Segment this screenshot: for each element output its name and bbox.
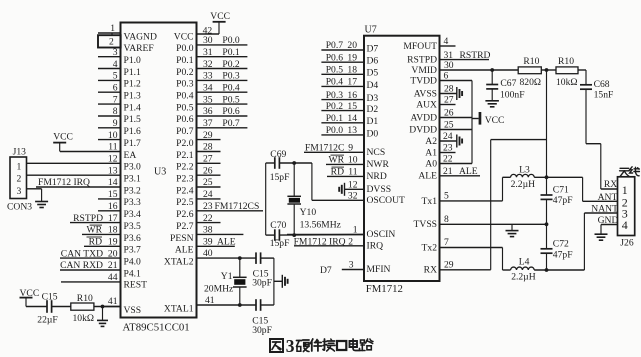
svg-text:VCC: VCC [485, 115, 505, 126]
svg-text:DVSS: DVSS [367, 184, 392, 195]
svg-text:FM1712 IRQ: FM1712 IRQ [294, 236, 346, 247]
svg-text:WR: WR [329, 155, 345, 166]
svg-text:CON3: CON3 [7, 202, 32, 213]
svg-text:9: 9 [348, 143, 353, 154]
svg-text:C72: C72 [553, 239, 569, 250]
svg-text:3: 3 [17, 186, 22, 197]
svg-text:RSTPD: RSTPD [407, 55, 437, 66]
svg-text:OSCOUT: OSCOUT [367, 195, 406, 206]
svg-text:NCS: NCS [367, 147, 386, 158]
svg-text:100nF: 100nF [500, 90, 525, 101]
svg-text:RX: RX [604, 179, 617, 190]
svg-text:NANT: NANT [591, 203, 618, 214]
svg-text:30: 30 [203, 35, 213, 46]
svg-text:40: 40 [203, 248, 213, 259]
svg-text:VCC: VCC [174, 31, 194, 42]
svg-text:8: 8 [113, 106, 118, 117]
svg-text:C68: C68 [594, 79, 610, 90]
svg-text:P0.6: P0.6 [326, 52, 344, 63]
svg-text:VSS: VSS [124, 305, 142, 316]
svg-text:A2: A2 [425, 136, 437, 147]
svg-text:2: 2 [348, 236, 353, 247]
svg-text:17: 17 [347, 77, 357, 88]
svg-text:19: 19 [108, 237, 118, 248]
svg-text:30: 30 [444, 60, 454, 71]
svg-text:D7: D7 [367, 43, 379, 54]
svg-text:D4: D4 [367, 80, 379, 91]
svg-text:P0.6: P0.6 [176, 114, 194, 125]
svg-text:P0.3: P0.3 [222, 71, 240, 82]
svg-text:21: 21 [443, 166, 453, 177]
svg-text:18: 18 [108, 225, 118, 236]
svg-text:3: 3 [349, 259, 354, 270]
svg-text:P0.0: P0.0 [222, 35, 240, 46]
svg-text:D5: D5 [367, 68, 379, 79]
svg-text:D2: D2 [367, 104, 379, 115]
svg-text:XTAL2: XTAL2 [164, 256, 194, 267]
svg-text:FM1712C: FM1712C [305, 143, 344, 154]
svg-text:P0.4: P0.4 [176, 91, 194, 102]
svg-text:MFIN: MFIN [367, 264, 391, 275]
svg-text:P0.1: P0.1 [326, 113, 344, 124]
svg-text:P1.4: P1.4 [124, 102, 142, 113]
svg-text:26: 26 [444, 108, 454, 119]
svg-text:P2.7: P2.7 [176, 221, 194, 232]
svg-text:P0.1: P0.1 [176, 55, 194, 66]
svg-text:4: 4 [444, 36, 449, 47]
svg-text:C69: C69 [270, 149, 286, 160]
svg-text:A1: A1 [425, 147, 437, 158]
svg-text:L3: L3 [519, 165, 530, 176]
svg-text:20MHz: 20MHz [204, 284, 233, 295]
svg-text:CAN RXD: CAN RXD [60, 260, 103, 271]
svg-text:41: 41 [205, 295, 215, 306]
svg-text:P1.5: P1.5 [124, 114, 142, 125]
svg-text:820Ω: 820Ω [520, 77, 542, 88]
svg-text:5: 5 [444, 190, 449, 201]
svg-text:AT89C51CC01: AT89C51CC01 [123, 322, 190, 334]
svg-text:18: 18 [347, 65, 357, 76]
svg-text:P0.0: P0.0 [326, 125, 344, 136]
svg-text:13.56MHz: 13.56MHz [300, 219, 341, 230]
svg-text:24: 24 [203, 189, 213, 200]
svg-text:VMID: VMID [411, 65, 437, 76]
svg-text:ALE: ALE [217, 237, 236, 248]
svg-text:37: 37 [203, 118, 213, 129]
svg-text:33: 33 [203, 71, 213, 82]
svg-text:P2.5: P2.5 [176, 197, 194, 208]
svg-text:29: 29 [444, 259, 454, 270]
svg-text:P3.1: P3.1 [124, 174, 142, 185]
svg-text:3: 3 [286, 336, 295, 356]
svg-text:13: 13 [108, 165, 118, 176]
svg-text:P0.2: P0.2 [326, 101, 344, 112]
svg-text:27: 27 [203, 154, 213, 165]
svg-text:15pF: 15pF [270, 172, 290, 183]
svg-text:47pF: 47pF [553, 250, 573, 261]
svg-text:MFOUT: MFOUT [403, 41, 437, 52]
svg-text:TVSS: TVSS [414, 219, 437, 230]
svg-text:R10: R10 [77, 293, 93, 304]
svg-text:NRD: NRD [367, 171, 387, 182]
svg-text:A0: A0 [425, 158, 437, 169]
svg-text:Y1: Y1 [221, 271, 233, 282]
svg-text:19: 19 [347, 52, 357, 63]
svg-text:14: 14 [347, 113, 357, 124]
svg-text:13: 13 [347, 125, 357, 136]
svg-text:P1.7: P1.7 [124, 138, 142, 149]
svg-text:10kΩ: 10kΩ [556, 77, 578, 88]
svg-text:VCC: VCC [210, 11, 230, 22]
svg-text:RSTPD: RSTPD [73, 213, 103, 224]
svg-text:11: 11 [348, 167, 357, 178]
svg-text:VCC: VCC [53, 132, 73, 143]
svg-text:ALE: ALE [418, 171, 437, 182]
svg-text:16: 16 [347, 90, 357, 101]
svg-text:P3.5: P3.5 [124, 221, 142, 232]
svg-text:PESN: PESN [170, 233, 194, 244]
svg-text:11: 11 [108, 142, 117, 153]
svg-text:FM1712CS: FM1712CS [215, 201, 260, 212]
svg-text:J13: J13 [13, 147, 27, 158]
svg-text:ALE: ALE [175, 245, 194, 256]
svg-text:4: 4 [622, 218, 628, 232]
svg-text:D0: D0 [367, 128, 379, 139]
svg-text:25: 25 [203, 177, 213, 188]
svg-text:R10: R10 [558, 56, 574, 67]
svg-text:RD: RD [89, 237, 102, 248]
svg-text:2.2µH: 2.2µH [511, 179, 536, 190]
svg-text:AVDD: AVDD [411, 112, 438, 123]
svg-text:Y10: Y10 [300, 207, 317, 218]
svg-text:32: 32 [348, 191, 358, 202]
svg-text:27: 27 [444, 95, 454, 106]
svg-text:P3.3: P3.3 [124, 197, 142, 208]
svg-text:6: 6 [444, 71, 449, 82]
svg-text:44: 44 [108, 272, 118, 283]
svg-text:3: 3 [113, 47, 118, 58]
svg-text:38: 38 [203, 225, 213, 236]
svg-text:P1.6: P1.6 [124, 126, 142, 137]
svg-text:P2.1: P2.1 [176, 150, 194, 161]
svg-text:DVDD: DVDD [409, 124, 437, 135]
svg-text:29: 29 [203, 130, 213, 141]
svg-text:41: 41 [108, 296, 118, 307]
svg-text:FM1712 IRQ: FM1712 IRQ [38, 177, 90, 188]
svg-text:47pF: 47pF [553, 195, 573, 206]
svg-text:10: 10 [108, 130, 118, 141]
svg-text:P0.3: P0.3 [176, 79, 194, 90]
svg-text:Tx2: Tx2 [422, 242, 438, 253]
svg-text:31: 31 [203, 47, 213, 58]
svg-text:P0.5: P0.5 [176, 102, 194, 113]
svg-text:P3.4: P3.4 [124, 209, 142, 220]
svg-text:P2.6: P2.6 [176, 209, 194, 220]
svg-text:P3.7: P3.7 [124, 245, 142, 256]
svg-text:21: 21 [108, 260, 118, 271]
svg-text:32: 32 [203, 59, 213, 70]
svg-text:15pF: 15pF [270, 238, 290, 249]
svg-text:36: 36 [203, 106, 213, 117]
svg-text:12: 12 [108, 154, 118, 165]
svg-text:34: 34 [203, 83, 213, 94]
svg-text:IRQ: IRQ [367, 240, 384, 251]
svg-text:10kΩ: 10kΩ [73, 313, 95, 324]
svg-text:4: 4 [113, 59, 118, 70]
svg-text:28: 28 [444, 84, 454, 95]
svg-text:16: 16 [108, 201, 118, 212]
svg-text:8: 8 [444, 214, 449, 225]
svg-text:P0.7: P0.7 [326, 40, 344, 51]
svg-text:7: 7 [444, 237, 449, 248]
svg-text:AUX: AUX [416, 99, 437, 110]
svg-text:WR: WR [87, 225, 103, 236]
svg-text:15: 15 [108, 189, 118, 200]
svg-text:C67: C67 [500, 78, 516, 89]
svg-text:L4: L4 [519, 257, 530, 268]
svg-text:15: 15 [347, 101, 357, 112]
svg-text:NWR: NWR [367, 159, 390, 170]
svg-text:P3.2: P3.2 [124, 185, 142, 196]
svg-text:P1.3: P1.3 [124, 91, 142, 102]
svg-text:Tx1: Tx1 [422, 196, 438, 207]
svg-text:P0.7: P0.7 [176, 126, 194, 137]
svg-text:P0.2: P0.2 [176, 67, 194, 78]
svg-text:AVSS: AVSS [414, 88, 437, 99]
svg-text:C15: C15 [42, 291, 58, 302]
svg-text:C71: C71 [553, 185, 569, 196]
svg-text:RX: RX [424, 265, 437, 276]
svg-text:D6: D6 [367, 56, 379, 67]
svg-text:P0.5: P0.5 [326, 65, 344, 76]
svg-text:P1.0: P1.0 [124, 55, 142, 66]
svg-text:P4.1: P4.1 [124, 268, 142, 279]
svg-text:30pF: 30pF [252, 278, 272, 289]
svg-text:ALE: ALE [459, 166, 478, 177]
svg-text:5: 5 [113, 71, 118, 82]
svg-text:ANT: ANT [598, 192, 618, 203]
svg-text:RSTRD: RSTRD [460, 50, 491, 61]
svg-text:OSCIN: OSCIN [367, 229, 396, 240]
svg-text:26: 26 [203, 165, 213, 176]
svg-text:P3.6: P3.6 [124, 233, 142, 244]
svg-text:P0.1: P0.1 [222, 47, 240, 58]
svg-text:P2.0: P2.0 [176, 138, 194, 149]
svg-text:9: 9 [113, 118, 118, 129]
svg-text:VAGND: VAGND [124, 31, 157, 42]
svg-text:22µF: 22µF [37, 315, 57, 326]
svg-text:P1.1: P1.1 [124, 67, 142, 78]
svg-text:39: 39 [203, 237, 213, 248]
svg-text:35: 35 [203, 94, 213, 105]
svg-text:P2.4: P2.4 [176, 185, 194, 196]
svg-text:28: 28 [203, 142, 213, 153]
svg-text:2.2µH: 2.2µH [511, 272, 536, 283]
svg-text:15nF: 15nF [594, 90, 614, 101]
svg-text:25: 25 [444, 120, 454, 131]
svg-text:VAREF: VAREF [124, 43, 154, 54]
svg-text:U7: U7 [365, 25, 377, 36]
svg-text:R10: R10 [523, 56, 539, 67]
svg-text:12: 12 [348, 180, 358, 191]
svg-text:U3: U3 [154, 167, 166, 178]
svg-text:20: 20 [347, 40, 357, 51]
svg-text:20: 20 [108, 248, 118, 259]
svg-text:XTAL1: XTAL1 [164, 303, 194, 314]
svg-text:P0.0: P0.0 [176, 43, 194, 54]
svg-text:14: 14 [108, 177, 118, 188]
svg-text:D1: D1 [367, 116, 379, 127]
svg-text:J26: J26 [620, 238, 634, 249]
svg-text:P0.4: P0.4 [222, 83, 240, 94]
svg-text:17: 17 [108, 213, 118, 224]
svg-text:1: 1 [17, 161, 22, 172]
svg-text:1: 1 [110, 23, 115, 34]
svg-text:FM1712: FM1712 [366, 283, 403, 295]
svg-text:D7: D7 [320, 265, 332, 276]
svg-text:P4.0: P4.0 [124, 256, 142, 267]
svg-text:23: 23 [203, 201, 213, 212]
svg-text:P0.6: P0.6 [222, 106, 240, 117]
svg-text:REST: REST [124, 280, 148, 291]
svg-text:P0.7: P0.7 [222, 118, 240, 129]
svg-text:P2.2: P2.2 [176, 162, 194, 173]
svg-text:P1.2: P1.2 [124, 79, 142, 90]
svg-text:P2.3: P2.3 [176, 174, 194, 185]
svg-text:D3: D3 [367, 93, 379, 104]
svg-text:C70: C70 [270, 220, 286, 231]
svg-text:P0.2: P0.2 [222, 59, 240, 70]
svg-text:22: 22 [203, 213, 213, 224]
svg-text:RD: RD [331, 167, 344, 178]
svg-text:24: 24 [443, 131, 453, 142]
svg-text:P3.0: P3.0 [124, 162, 142, 173]
svg-text:TVDD: TVDD [410, 75, 437, 86]
svg-text:EA: EA [124, 150, 137, 161]
svg-text:22: 22 [443, 154, 453, 165]
svg-text:2: 2 [17, 174, 22, 185]
svg-text:7: 7 [113, 94, 118, 105]
svg-text:CAN TXD: CAN TXD [61, 248, 103, 259]
svg-text:30pF: 30pF [252, 325, 272, 336]
svg-text:P0.4: P0.4 [326, 77, 344, 88]
svg-text:10: 10 [348, 155, 358, 166]
svg-text:P0.5: P0.5 [222, 94, 240, 105]
svg-text:6: 6 [113, 83, 118, 94]
svg-text:23: 23 [443, 143, 453, 154]
svg-text:P0.3: P0.3 [326, 90, 344, 101]
